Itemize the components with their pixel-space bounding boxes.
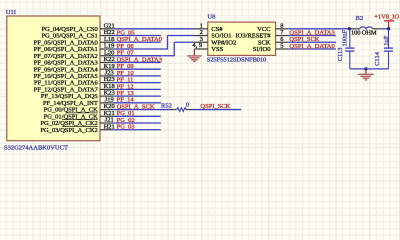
svg-text:0: 0 [186, 102, 189, 109]
svg-text:QSPI_SCK: QSPI_SCK [200, 103, 230, 110]
svg-text:S32G274AABK0VUCT: S32G274AABK0VUCT [4, 144, 68, 151]
svg-text:100 OHM: 100 OHM [351, 30, 377, 37]
svg-text:H21: H21 [104, 123, 115, 130]
svg-text:C114: C114 [374, 51, 381, 66]
svg-text:VSS: VSS [211, 46, 223, 53]
svg-text:B2: B2 [356, 15, 364, 22]
svg-text:5: 5 [280, 43, 283, 50]
svg-text:R52: R52 [161, 102, 172, 109]
svg-text:S25FS512SDSNFB010: S25FS512SDSNFB010 [207, 57, 266, 64]
svg-text:SI/IO0: SI/IO0 [253, 46, 271, 53]
svg-text:1uF: 1uF [383, 35, 390, 46]
svg-text:4, 9: 4, 9 [192, 42, 202, 49]
svg-text:QSPI_A_DATA0: QSPI_A_DATA0 [289, 43, 334, 50]
svg-text:U8: U8 [207, 14, 215, 21]
svg-text:C113: C113 [337, 47, 344, 61]
svg-text:U1I: U1I [6, 9, 16, 16]
svg-text:100nF: 100nF [341, 30, 348, 47]
svg-text:PG_03/QSPI_A_CK2: PG_03/QSPI_A_CK2 [40, 127, 97, 134]
svg-text:+1V8_IO: +1V8_IO [374, 13, 399, 20]
